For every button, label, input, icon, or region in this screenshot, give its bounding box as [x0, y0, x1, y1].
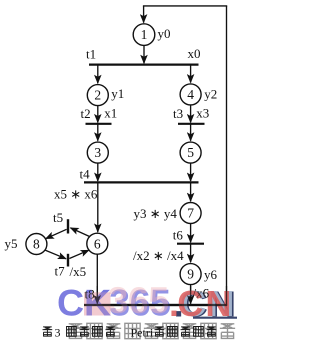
wire: P6 to t8 (lower part) [96, 286, 98, 304]
svg-text:5: 5 [148, 279, 169, 321]
wire: t1 to P4 [190, 65, 192, 83]
svg-text:t3: t3 [173, 106, 183, 121]
pink block over K [84, 292, 111, 315]
svg-text:/x2 ∗ /x4: /x2 ∗ /x4 [133, 248, 184, 263]
transition t8 bar over watermark [84, 304, 227, 306]
wire: feedback right vertical (t8 output up the right side) [226, 6, 228, 305]
place P5 [180, 142, 201, 163]
svg-text:3: 3 [94, 145, 101, 160]
transition t2 [86, 123, 112, 125]
svg-text:y0: y0 [158, 26, 171, 41]
caption: fig 3 control law Petri net model [43, 327, 53, 337]
svg-text:7: 7 [187, 206, 194, 221]
wire: P4 to t3 [190, 105, 192, 123]
svg-text:t6: t6 [173, 228, 184, 243]
svg-text:3: 3 [55, 326, 61, 340]
place P6 [87, 233, 108, 254]
wire: P5 to t4 [190, 163, 192, 181]
svg-text:t4: t4 [80, 166, 91, 181]
svg-text:y3 ∗ y4: y3 ∗ y4 [134, 206, 178, 221]
svg-text:y5: y5 [5, 236, 18, 251]
wire: P6 to t5 [71, 228, 90, 237]
svg-text:3: 3 [108, 279, 129, 321]
wire: P7 to t6 [190, 224, 192, 243]
svg-text:6: 6 [94, 236, 101, 251]
wire: t7 to P6 [69, 250, 88, 258]
transition t4 [84, 181, 199, 183]
place P1 [133, 24, 155, 46]
navy underline of logo [193, 317, 237, 319]
svg-text:t8: t8 [85, 287, 95, 302]
steel blue copy of CN [180, 283, 234, 324]
transition t3 [178, 123, 205, 125]
feedback right line lower part [226, 286, 228, 305]
transition t5 (vertical bar) [67, 219, 69, 233]
place P7 [180, 203, 201, 224]
wire: P1 to t1 [143, 45, 145, 63]
wire: P8 to t7 [45, 250, 66, 259]
wire: P9 to t8 (lower part) [190, 286, 192, 304]
pink offset copy of 365 [108, 279, 170, 321]
place P9 [180, 264, 201, 285]
svg-text:t2: t2 [81, 106, 91, 121]
svg-text:/x6: /x6 [193, 285, 210, 300]
wire: t4 to P7 [190, 182, 192, 201]
place P2 [87, 85, 108, 106]
svg-text:C: C [57, 281, 84, 323]
wire: feedback top horizontal [143, 5, 227, 7]
svg-text:9: 9 [187, 267, 194, 282]
svg-text:x1: x1 [104, 105, 117, 120]
red .CN [169, 283, 231, 324]
transition t6 [177, 243, 204, 245]
wire: P9 to t8 [190, 285, 192, 304]
svg-text:y2: y2 [204, 86, 217, 101]
wire: feedback drop into place P1 [143, 6, 145, 23]
place P3 [87, 142, 108, 163]
wire: t5 to P8 [46, 229, 67, 238]
wire: t1 to P2 [97, 65, 99, 84]
wire: t4 to P6 [97, 182, 99, 232]
wire: P2 to t2 [97, 106, 99, 123]
svg-text:t5: t5 [53, 210, 63, 225]
wire: P3 to t4 [97, 163, 99, 181]
place P8 [26, 234, 47, 255]
navy offset copy of .CN [174, 283, 236, 324]
svg-text:y1: y1 [111, 86, 124, 101]
diagram ink redrawn over watermark [84, 285, 227, 305]
watermark CK365.CN [57, 279, 237, 324]
wire: t2 to P3 [97, 124, 99, 141]
transition t8 [84, 304, 227, 306]
blue CK365 [57, 281, 111, 323]
svg-text:8: 8 [33, 237, 40, 252]
svg-text:5: 5 [187, 145, 194, 160]
wire: P6 to t8 [96, 254, 98, 303]
svg-text:Petri: Petri [131, 326, 154, 340]
svg-text:y6: y6 [204, 267, 218, 282]
svg-text:t7: t7 [55, 263, 66, 278]
svg-text:x5 ∗ x6: x5 ∗ x6 [54, 187, 98, 202]
wire: t6 to P9 [190, 244, 192, 263]
svg-text:t1: t1 [86, 47, 96, 62]
watermark gray chinese text [68, 323, 235, 338]
place P4 [180, 84, 201, 105]
svg-text:6: 6 [128, 279, 149, 321]
svg-text:/x5: /x5 [70, 264, 87, 279]
svg-text:4: 4 [187, 87, 194, 102]
svg-text:x0: x0 [188, 46, 201, 61]
svg-text:x3: x3 [196, 105, 209, 120]
transition t7 (vertical bar) [67, 254, 69, 267]
transition t1 [89, 63, 199, 65]
wire: t3 to P5 [190, 124, 192, 141]
svg-text:2: 2 [94, 88, 101, 103]
svg-text:1: 1 [141, 27, 148, 42]
